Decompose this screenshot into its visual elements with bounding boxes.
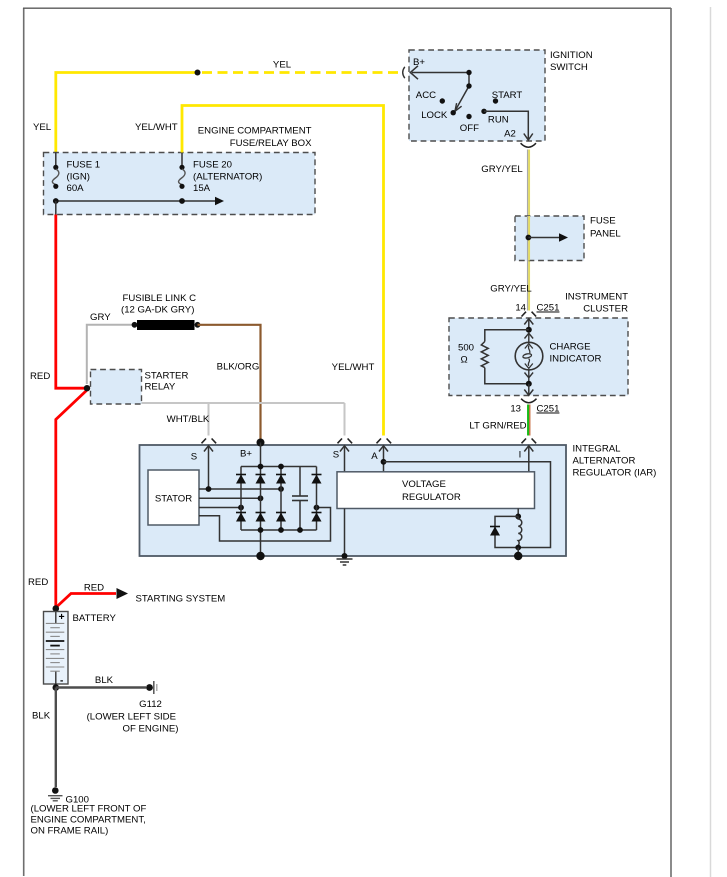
svg-text:INTEGRAL: INTEGRAL — [573, 444, 622, 455]
ignition switch box — [409, 50, 545, 141]
bridge column 2 (B+) — [260, 443, 262, 557]
ignition B+ wire with left arrow — [412, 72, 469, 74]
svg-text:BLK: BLK — [95, 675, 114, 686]
svg-text:CLUSTER: CLUSTER — [583, 304, 628, 315]
svg-text:GRY/YEL: GRY/YEL — [490, 284, 532, 295]
diode D7 bottom — [276, 513, 286, 522]
fuse F20 symbol — [181, 153, 183, 167]
wire cluster input arrow — [528, 319, 530, 330]
connector half above IAR terminal S2 — [338, 439, 353, 444]
svg-text:I: I — [519, 450, 522, 461]
wire stator phase 1 — [199, 488, 281, 490]
integral alternator regulator box — [140, 445, 567, 556]
wire RED diagonal past starter relay — [56, 391, 87, 608]
svg-text:PANEL: PANEL — [590, 229, 621, 240]
svg-text:(ALTERNATOR): (ALTERNATOR) — [193, 172, 262, 183]
wire GRY/YEL through fuse panel — [527, 216, 529, 261]
svg-text:YEL: YEL — [273, 60, 292, 71]
svg-text:RUN: RUN — [488, 114, 509, 125]
page frame right border — [670, 8, 672, 877]
IAR terminal A arrow — [383, 446, 385, 472]
svg-text:FUSE 20: FUSE 20 — [193, 160, 232, 171]
svg-text:LOCK: LOCK — [421, 110, 448, 121]
connector half above IAR terminal I — [522, 439, 537, 444]
svg-text:-: - — [60, 676, 63, 687]
node battery negative — [53, 684, 60, 691]
svg-text:ALTERNATOR: ALTERNATOR — [573, 456, 636, 467]
connector half at ignition switch B+ — [403, 67, 405, 78]
node field bottom junction — [515, 545, 521, 551]
wire YEL vertical from fuse 1 to corner — [56, 73, 197, 153]
svg-text:BATTERY: BATTERY — [73, 613, 117, 624]
node START contact — [493, 98, 498, 103]
svg-text:+: + — [59, 611, 65, 623]
node phase3 to diode column 1 — [238, 505, 244, 511]
wire field to case — [517, 548, 519, 557]
node bottom rail c3 — [278, 527, 284, 533]
ground symbol IAR — [337, 559, 353, 565]
ground G112 — [146, 684, 153, 691]
diode D4 top — [312, 475, 322, 484]
node column 4 tap — [314, 505, 320, 511]
node fuse20 bottom — [179, 198, 185, 204]
node cluster bottom junction — [526, 381, 532, 387]
connector half above instrument cluster — [522, 312, 537, 317]
node fuse panel tap — [526, 235, 532, 241]
node B+ contact — [466, 70, 471, 75]
svg-text:CHARGE: CHARGE — [550, 342, 591, 353]
wire fuse panel arrow — [528, 237, 560, 239]
inductor field coil — [518, 516, 522, 547]
connector half below instrument cluster — [521, 399, 536, 403]
node top rail c3 — [278, 464, 284, 470]
wire fuse1 lower stub — [55, 201, 57, 215]
arrow to starting system — [117, 588, 129, 599]
svg-text:GRY: GRY — [90, 312, 111, 323]
wire GRY/YEL ignition to instrument cluster — [527, 150, 529, 311]
svg-text:FUSE: FUSE — [590, 216, 616, 227]
svg-text:INSTRUMENT: INSTRUMENT — [565, 292, 628, 303]
svg-text:15A: 15A — [193, 183, 211, 194]
node field top junction — [515, 514, 521, 520]
diode D3 top — [276, 475, 286, 484]
svg-text:C251: C251 — [537, 303, 560, 314]
wire BLK to G100 — [55, 688, 57, 788]
stator box — [148, 470, 199, 525]
svg-text:REGULATOR (IAR): REGULATOR (IAR) — [573, 468, 657, 479]
node phase2 to diode column 2 — [258, 495, 264, 501]
capacitor column — [299, 467, 301, 497]
node starter relay terminal — [84, 385, 90, 391]
svg-text:BLK: BLK — [32, 711, 51, 722]
node cluster top junction — [526, 327, 532, 333]
wire cluster output arrow — [528, 384, 530, 396]
svg-text:FUSIBLE LINK C: FUSIBLE LINK C — [123, 293, 197, 304]
svg-text:BLK/ORG: BLK/ORG — [217, 362, 260, 373]
svg-text:B+: B+ — [240, 449, 252, 460]
connector half above IAR terminal A — [377, 439, 392, 444]
svg-text:C251: C251 — [537, 404, 560, 415]
wire GRY from fusible link to starter relay — [87, 325, 134, 384]
svg-text:G112: G112 — [139, 699, 162, 710]
svg-text:RED: RED — [84, 583, 104, 594]
bridge column 3 — [280, 467, 282, 531]
diode D5 bottom — [236, 513, 246, 522]
diode D6 bottom — [256, 513, 266, 522]
svg-text:A: A — [371, 451, 378, 462]
svg-text:STATOR: STATOR — [155, 494, 192, 505]
svg-text:ACC: ACC — [416, 90, 436, 101]
node ground junction — [342, 553, 348, 559]
diode D8 bottom — [312, 513, 322, 522]
IAR terminal S2 arrow — [344, 446, 346, 472]
wire stator phase 2 — [199, 497, 261, 499]
node OFF contact — [466, 114, 471, 119]
node wiper pivot — [466, 83, 471, 88]
wire stator phase 3 — [199, 507, 241, 509]
diode D2 top — [256, 475, 266, 484]
svg-text:LT GRN/RED: LT GRN/RED — [469, 421, 526, 432]
IAR terminal I arrow — [528, 446, 530, 472]
svg-text:B+: B+ — [413, 57, 425, 68]
node ACC contact — [440, 98, 445, 103]
wire LT GRN/RED — [527, 405, 529, 436]
node junction dot on YEL wire — [195, 70, 201, 76]
field diode branch — [495, 516, 518, 547]
svg-text:FUSE/RELAY BOX: FUSE/RELAY BOX — [230, 138, 312, 149]
diode D1 top — [236, 475, 246, 484]
rectifier bridge rails — [241, 466, 317, 468]
node bottom rail capacitor — [297, 527, 303, 533]
fuse panel box — [515, 216, 584, 261]
ignition switch wiper — [468, 73, 470, 87]
instrument cluster box — [449, 318, 628, 396]
svg-text:OFF: OFF — [460, 123, 479, 134]
svg-text:S: S — [191, 452, 197, 463]
node fuse1 bottom — [53, 198, 59, 204]
fuse F1 symbol — [55, 153, 57, 167]
connector half below ignition switch — [521, 143, 536, 147]
engine compartment fuse/relay box — [44, 153, 316, 215]
svg-text:RED: RED — [30, 371, 50, 382]
node A field tap — [381, 459, 387, 465]
node top rail c2 — [258, 464, 264, 470]
svg-text:STARTING SYSTEM: STARTING SYSTEM — [136, 594, 226, 605]
connector half above IAR terminal S1 — [202, 439, 217, 444]
svg-text:REGULATOR: REGULATOR — [402, 492, 461, 503]
svg-text:FUSE 1: FUSE 1 — [67, 160, 101, 171]
starter relay box — [91, 370, 142, 405]
wire A to field coil feed — [384, 462, 551, 548]
page frame left border — [23, 8, 25, 876]
svg-text:YEL: YEL — [33, 122, 52, 133]
bridge column 4 — [316, 467, 318, 531]
page frame top border — [23, 7, 671, 9]
svg-text:YEL/WHT: YEL/WHT — [135, 122, 178, 133]
IAR terminal S1 arrow — [208, 446, 210, 490]
svg-text:INDICATOR: INDICATOR — [550, 354, 602, 365]
svg-text:500: 500 — [458, 343, 474, 354]
svg-text:ENGINE COMPARTMENT: ENGINE COMPARTMENT — [198, 126, 312, 137]
node phase1 to diode column 3 — [278, 486, 284, 492]
node battery positive — [53, 605, 60, 612]
svg-text:STARTER: STARTER — [145, 371, 189, 382]
wire RUN to A2 output — [484, 111, 528, 139]
charge indicator lamp — [515, 342, 543, 370]
svg-text:Ω: Ω — [461, 355, 468, 366]
svg-text:60A: 60A — [67, 183, 85, 194]
node field case dot — [514, 552, 522, 560]
svg-text:IGNITION: IGNITION — [550, 50, 593, 61]
svg-text:YEL/WHT: YEL/WHT — [332, 362, 375, 373]
wire YEL dashed to ignition switch — [202, 71, 399, 74]
svg-text:(LOWER LEFT SIDE: (LOWER LEFT SIDE — [87, 712, 176, 723]
svg-text:VOLTAGE: VOLTAGE — [402, 479, 446, 490]
node B+ bottom on IAR edge — [256, 552, 264, 560]
svg-text:ON FRAME RAIL): ON FRAME RAIL) — [31, 826, 109, 837]
wire WHT/BLK from starter relay to IAR S terminals — [142, 402, 345, 404]
svg-text:A2: A2 — [504, 128, 516, 139]
svg-text:RELAY: RELAY — [145, 382, 176, 393]
svg-text:(IGN): (IGN) — [67, 172, 90, 183]
wire RED from fuse 1 down — [56, 215, 85, 389]
node RUN contact — [481, 109, 486, 114]
svg-text:ENGINE COMPARTMENT,: ENGINE COMPARTMENT, — [31, 815, 146, 826]
svg-text:GRY/YEL: GRY/YEL — [481, 164, 523, 175]
battery — [44, 612, 69, 685]
resistor 500 ohm branch — [485, 330, 529, 342]
wire YEL/WHT from fuse 20 to IAR terminal A — [182, 106, 384, 436]
wire BLK/ORG from fusible link to IAR B+ — [198, 325, 261, 440]
wire RED battery to starting system branch — [57, 594, 116, 607]
scrollbar edge line — [710, 7, 712, 877]
wire fuse box bottom rail with arrow — [56, 200, 216, 202]
wire VR to field junction — [517, 509, 519, 517]
svg-text:13: 13 — [510, 404, 521, 415]
node S1 tap — [206, 486, 212, 492]
node B+ entry dot — [257, 439, 265, 447]
diode D9 field — [490, 527, 500, 536]
bridge column 1 — [240, 467, 242, 531]
svg-text:OF ENGINE): OF ENGINE) — [123, 724, 179, 735]
svg-text:START: START — [492, 90, 523, 101]
svg-text:WHT/BLK: WHT/BLK — [167, 414, 210, 425]
node LOCK contact — [451, 110, 456, 115]
voltage regulator box — [337, 472, 535, 509]
wire stator neutral loop to column 4 — [199, 508, 331, 542]
svg-text:RED: RED — [28, 577, 48, 588]
svg-text:(12 GA-DK GRY): (12 GA-DK GRY) — [121, 305, 194, 316]
svg-text:(LOWER LEFT FRONT OF: (LOWER LEFT FRONT OF — [31, 804, 147, 815]
svg-text:SWITCH: SWITCH — [550, 62, 588, 73]
ground G100 — [52, 787, 59, 794]
svg-text:S: S — [333, 450, 339, 461]
wire BLK to G112 — [56, 686, 146, 688]
node bottom rail c2 — [258, 527, 264, 533]
wire S2 ground leg — [344, 509, 346, 557]
